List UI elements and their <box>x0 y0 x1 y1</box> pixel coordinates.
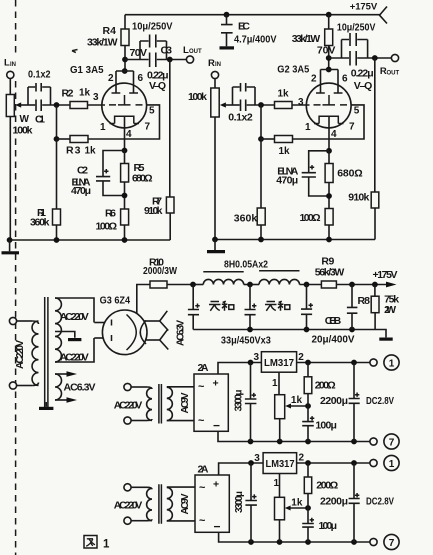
svg-text:AC220V: AC220V <box>60 351 89 363</box>
svg-text:0.1x2: 0.1x2 <box>28 69 51 81</box>
svg-text:33k/1W: 33k/1W <box>292 33 321 45</box>
svg-text:910k: 910k <box>144 205 163 217</box>
svg-text:CBB: CBB <box>325 315 342 327</box>
svg-text:AC9V: AC9V <box>180 493 191 514</box>
svg-text:AC220V: AC220V <box>15 340 26 369</box>
svg-text:C3: C3 <box>161 45 173 57</box>
svg-text:LM317: LM317 <box>266 459 295 470</box>
svg-text:1: 1 <box>274 478 280 489</box>
svg-text:~: ~ <box>199 482 206 494</box>
svg-text:1: 1 <box>389 358 395 369</box>
svg-text:10μ/250V: 10μ/250V <box>337 22 376 34</box>
svg-text:100k: 100k <box>13 125 33 137</box>
svg-text:3300μ: 3300μ <box>234 390 245 412</box>
svg-text:470μ: 470μ <box>276 175 298 187</box>
svg-text:1k: 1k <box>278 89 290 100</box>
svg-text:−: − <box>214 520 221 534</box>
svg-text:2200μ: 2200μ <box>320 496 348 508</box>
svg-text:1k: 1k <box>85 145 97 156</box>
svg-text:20μ/400V: 20μ/400V <box>312 333 355 345</box>
svg-text:6: 6 <box>138 73 144 84</box>
svg-text:910k: 910k <box>348 191 369 203</box>
svg-text:AC220V: AC220V <box>114 399 143 411</box>
svg-text:680Ω: 680Ω <box>132 173 153 185</box>
svg-text:IN: IN <box>10 62 16 68</box>
svg-text:200Ω: 200Ω <box>316 480 338 492</box>
svg-text:EC: EC <box>238 20 250 32</box>
svg-text:100μ: 100μ <box>315 420 337 432</box>
svg-text:AC6.3V: AC6.3V <box>176 320 187 346</box>
svg-text:C1: C1 <box>35 114 45 126</box>
svg-text:2W: 2W <box>384 304 396 316</box>
svg-text:R4: R4 <box>103 25 117 37</box>
svg-text:2A: 2A <box>198 464 209 476</box>
svg-text:AC9V: AC9V <box>180 392 191 413</box>
svg-text:680Ω: 680Ω <box>337 168 363 180</box>
svg-text:1k: 1k <box>279 146 291 157</box>
svg-text:2: 2 <box>311 73 317 84</box>
svg-text:100k: 100k <box>188 91 207 103</box>
svg-text:AC220V: AC220V <box>60 311 89 323</box>
svg-text:+: + <box>213 378 219 390</box>
svg-text:G1 3A5: G1 3A5 <box>70 64 104 76</box>
svg-text:0.1x2: 0.1x2 <box>228 112 253 124</box>
svg-text:R: R <box>208 58 215 69</box>
svg-text:1: 1 <box>389 459 395 470</box>
svg-text:5: 5 <box>354 105 360 116</box>
svg-text:2: 2 <box>299 453 305 464</box>
svg-text:360k: 360k <box>234 213 258 225</box>
svg-text:7: 7 <box>389 538 395 549</box>
svg-text:7: 7 <box>389 437 395 448</box>
svg-text:70V: 70V <box>130 47 148 59</box>
svg-text:IN: IN <box>215 62 221 68</box>
svg-text:+: + <box>213 479 219 491</box>
svg-text:1k: 1k <box>291 395 303 406</box>
svg-text:7: 7 <box>349 121 355 132</box>
svg-text:2200μ: 2200μ <box>320 395 348 407</box>
svg-text:1k: 1k <box>79 88 91 99</box>
svg-text:1: 1 <box>103 539 110 551</box>
svg-text:DC2.8V: DC2.8V <box>366 497 394 508</box>
svg-text:OUT: OUT <box>189 49 202 55</box>
svg-text:~: ~ <box>199 515 206 527</box>
svg-text:10μ/250V: 10μ/250V <box>132 20 173 32</box>
svg-text:1k: 1k <box>291 498 303 509</box>
svg-text:~: ~ <box>198 381 205 393</box>
svg-text:4.7μ/400V: 4.7μ/400V <box>234 34 277 46</box>
svg-text:8H0.05Ax2: 8H0.05Ax2 <box>224 258 268 270</box>
svg-text:OUT: OUT <box>387 70 400 76</box>
svg-text:2: 2 <box>108 73 114 84</box>
svg-text:6: 6 <box>342 73 348 84</box>
svg-text:3: 3 <box>93 92 99 103</box>
svg-text:200Ω: 200Ω <box>315 379 336 391</box>
svg-text:33k/1W: 33k/1W <box>87 36 118 48</box>
svg-text:DC2.8V: DC2.8V <box>366 396 394 407</box>
svg-text:4: 4 <box>126 129 132 140</box>
svg-text:2: 2 <box>298 352 304 363</box>
svg-text:C2: C2 <box>77 164 88 176</box>
svg-text:LM317: LM317 <box>264 358 294 369</box>
svg-text:~: ~ <box>198 415 205 427</box>
svg-text:3: 3 <box>254 352 260 363</box>
svg-text:7: 7 <box>145 121 151 132</box>
svg-text:+175V: +175V <box>373 269 398 281</box>
svg-text:1: 1 <box>272 378 278 389</box>
svg-text:V–Q: V–Q <box>354 80 373 92</box>
svg-text:3: 3 <box>254 453 260 464</box>
svg-text:470μ: 470μ <box>71 185 91 197</box>
svg-text:70V: 70V <box>317 44 336 56</box>
svg-text:3300μ: 3300μ <box>234 491 245 513</box>
svg-text:AC6.3V: AC6.3V <box>64 382 96 394</box>
svg-text:33μ/450Vx3: 33μ/450Vx3 <box>221 334 271 346</box>
svg-text:5: 5 <box>149 105 155 116</box>
svg-text:G2 3A5: G2 3A5 <box>277 63 309 75</box>
svg-text:1: 1 <box>100 122 106 133</box>
svg-text:0.22μ: 0.22μ <box>351 68 374 80</box>
svg-text:AC220V: AC220V <box>114 500 143 512</box>
svg-text:R6: R6 <box>105 208 116 220</box>
svg-text:100Ω: 100Ω <box>96 220 118 232</box>
svg-text:R3: R3 <box>66 144 81 156</box>
svg-text:100Ω: 100Ω <box>300 212 321 224</box>
svg-text:1: 1 <box>305 122 311 133</box>
svg-text:100μ: 100μ <box>319 520 338 532</box>
svg-text:−: − <box>213 419 220 433</box>
svg-text:+175V: +175V <box>350 2 378 13</box>
svg-text:V–Q: V–Q <box>149 80 166 92</box>
svg-text:3: 3 <box>298 97 304 108</box>
svg-text:2A: 2A <box>198 362 209 374</box>
svg-text:W: W <box>20 114 30 125</box>
svg-text:56k/3W: 56k/3W <box>315 267 345 279</box>
svg-text:R8: R8 <box>358 295 371 307</box>
svg-text:4: 4 <box>331 129 337 140</box>
svg-text:R2: R2 <box>62 88 74 100</box>
svg-text:360k: 360k <box>30 216 50 228</box>
svg-text:2000/3W: 2000/3W <box>143 265 177 277</box>
svg-text:G3 6Z4: G3 6Z4 <box>100 295 131 307</box>
